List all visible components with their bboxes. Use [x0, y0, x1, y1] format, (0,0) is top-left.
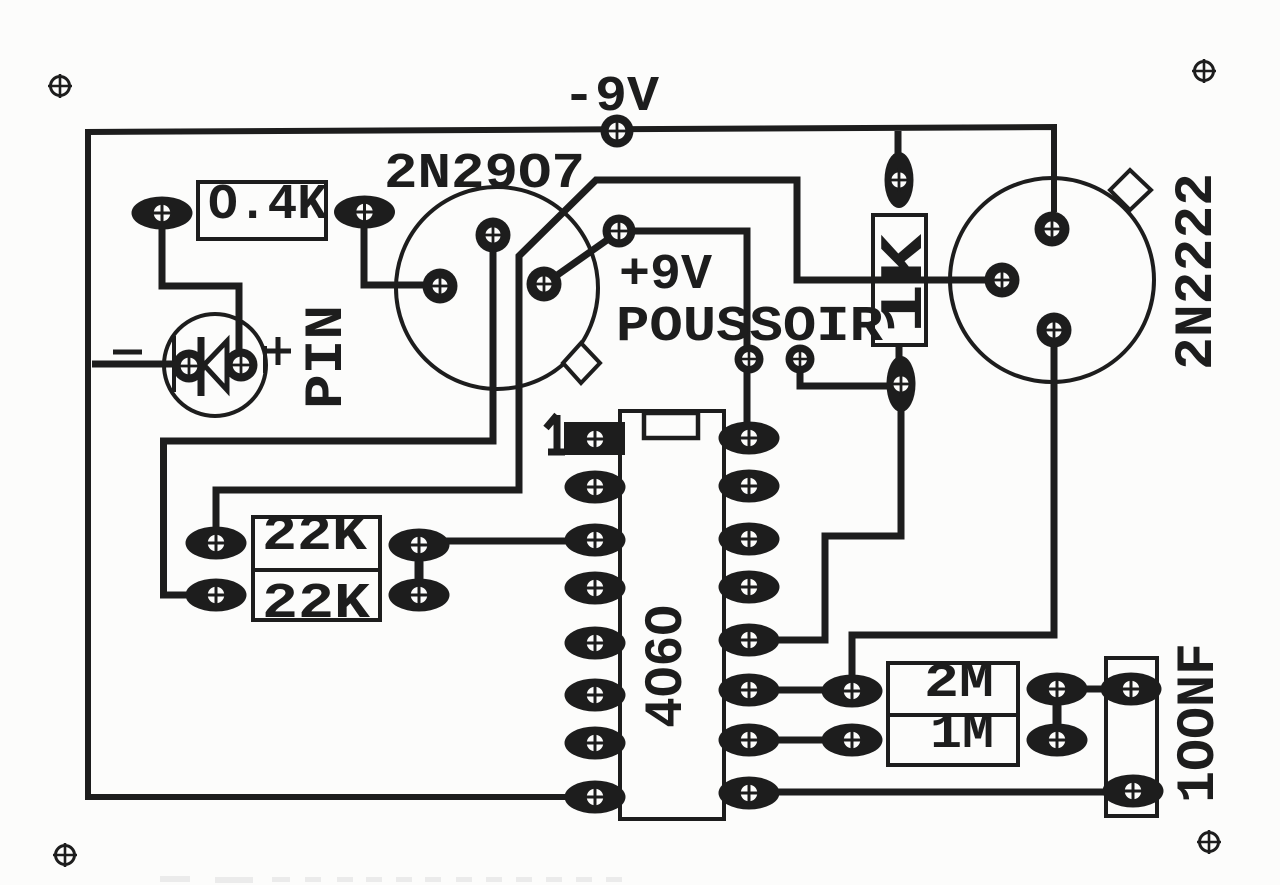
- capacitor 100NF body: [1106, 658, 1157, 816]
- wire 0.4K left to LED anode: [162, 213, 239, 360]
- pad 100NF bottom: [1103, 775, 1164, 808]
- IC pin3 pad: [565, 524, 626, 557]
- wire Q2 base trace through 1K to 22K upper-left: [216, 180, 1002, 543]
- Q2 tab diamond: [1110, 170, 1151, 210]
- IC pin1 square pad: [564, 422, 625, 455]
- transistor Q1 2N2907 outline: [396, 187, 598, 389]
- wire +9V pad to IC pin16: [627, 231, 747, 438]
- IC pin6 pad: [565, 679, 626, 712]
- IC pin7 pad: [565, 727, 626, 760]
- resistor 1K body: [873, 215, 926, 345]
- pad Q1 base: [423, 269, 458, 304]
- IC pin14 pad: [719, 523, 780, 556]
- pad 100NF top: [1101, 673, 1162, 706]
- pad 2M right: [1027, 673, 1088, 706]
- IC U1 pin-1 notch: [644, 413, 698, 438]
- wire 0.4K right to Q1 base: [364, 212, 440, 285]
- pad 1M right: [1027, 724, 1088, 757]
- svg-text:22K: 22K: [262, 508, 367, 565]
- pad Q1 collector: [476, 218, 511, 253]
- pad +9V: [603, 215, 636, 248]
- pad 2M left: [822, 675, 883, 708]
- wire 22K right pads junction: [415, 545, 424, 595]
- pad 22K lower-left: [186, 579, 247, 612]
- IC pin5 pad: [565, 627, 626, 660]
- IC pin4 pad: [565, 572, 626, 605]
- svg-text:22K: 22K: [262, 576, 370, 633]
- pad 0.4K right: [334, 196, 395, 229]
- wire +9V pad to Q1 emitter: [546, 233, 617, 283]
- pad Q2 collector: [1035, 212, 1070, 247]
- IC pin16 pad: [719, 422, 780, 455]
- resistor 2M body: [888, 663, 1018, 715]
- wire IC pin11 to 2M left: [749, 687, 852, 694]
- IC pin2 pad: [565, 471, 626, 504]
- pad 22K upper-left: [186, 527, 247, 560]
- IC pin8 pad: [565, 781, 626, 814]
- svg-text:1OONF: 1OONF: [1169, 643, 1230, 803]
- IC pin9 pad: [719, 777, 780, 810]
- IC pin11 pad: [719, 674, 780, 707]
- transistor Q2 2N2222 outline: [950, 178, 1154, 382]
- svg-text:2N29O7: 2N29O7: [384, 146, 585, 203]
- pad Q2 emitter: [1037, 313, 1072, 348]
- pad POUSSOIR left: [735, 345, 764, 374]
- fiducial top-right: [1192, 59, 1216, 83]
- wire IC pin10 to 1M left: [749, 737, 852, 744]
- wire 2M right to 100NF top: [1057, 686, 1131, 693]
- svg-text:1M: 1M: [930, 708, 994, 762]
- Q1 tab diamond: [563, 343, 600, 383]
- svg-text:1K: 1K: [872, 234, 940, 334]
- fiducial top-left: [48, 74, 72, 98]
- resistor 1M body: [888, 715, 1018, 765]
- svg-text:O.4K: O.4K: [208, 177, 327, 234]
- wire 1K bottom staircase to IC pin12: [749, 345, 901, 640]
- wire LED cathode to left rail: [92, 361, 189, 368]
- label pin 1: [546, 415, 565, 452]
- fiducial bottom-right: [1197, 830, 1221, 854]
- pad Q2 base: [985, 263, 1020, 298]
- wire Q1 top pad to 22K lower-left: [164, 235, 494, 595]
- LED minus sign: [113, 350, 142, 355]
- wire POUSSOIR right pad down: [800, 359, 899, 386]
- wire top rail to 1K: [895, 131, 902, 180]
- fiducial bottom-left: [53, 843, 77, 867]
- pad above 1K: [885, 152, 914, 208]
- LED D1 outline: [164, 314, 266, 416]
- svg-text:2M: 2M: [924, 657, 994, 711]
- svg-text:-9V: -9V: [563, 69, 659, 126]
- pad Q1 emitter: [527, 267, 562, 302]
- wire 22K upper-right to IC pin3: [419, 538, 595, 545]
- pad LED cathode: [173, 350, 206, 383]
- IC U1 4060 body: [620, 411, 724, 819]
- IC pin10 pad: [719, 724, 780, 757]
- wire Q2 emitter down to 2M left: [852, 330, 1054, 691]
- resistor 22K (bottom) body: [253, 570, 380, 620]
- resistor 22K (top) body: [253, 517, 380, 570]
- pad POUSSOIR right: [786, 345, 815, 374]
- pad LED anode: [225, 349, 258, 382]
- IC pin12 pad: [719, 624, 780, 657]
- LED cathode bar: [198, 337, 205, 396]
- svg-text:4O6O: 4O6O: [637, 605, 698, 728]
- pad 22K upper-right: [389, 529, 450, 562]
- svg-text:PIN: PIN: [297, 305, 358, 409]
- wire -9V top rail and left/bottom trace: [88, 127, 1054, 797]
- svg-text:POUSSOIR: POUSSOIR: [616, 299, 883, 356]
- pad 0.4K left: [132, 197, 193, 230]
- IC pin13 pad: [719, 571, 780, 604]
- LED triangle: [204, 341, 227, 390]
- LED plus sign: [265, 337, 291, 365]
- wire 2M/1M right pads junction: [1053, 689, 1062, 740]
- resistor 0.4K body: [198, 182, 326, 239]
- pad -9V rail: [601, 115, 634, 148]
- wire IC pin9 to 100NF bottom: [749, 789, 1133, 796]
- svg-text:2N2222: 2N2222: [1167, 173, 1228, 370]
- IC pin15 pad: [719, 470, 780, 503]
- pad 22K lower-right: [389, 579, 450, 612]
- pad 1M left: [822, 724, 883, 757]
- pad below 1K: [887, 356, 916, 412]
- svg-text:+9V: +9V: [619, 247, 712, 304]
- bottom edge faint scan marks: [160, 876, 622, 883]
